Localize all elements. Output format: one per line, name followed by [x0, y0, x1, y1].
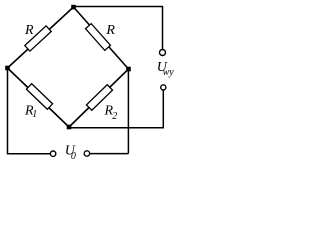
svg-text:R: R [24, 23, 34, 38]
label R2 [104, 103, 118, 122]
svg-text:1: 1 [32, 109, 37, 120]
label Uwy [157, 60, 174, 78]
svg-text:0: 0 [71, 151, 76, 162]
resistor R1 [26, 84, 52, 110]
node left [5, 66, 10, 71]
resistor R (top-left) [25, 26, 51, 51]
node bottom [67, 125, 72, 130]
label U0 [65, 143, 76, 162]
wire top node to Uwy upper terminal [74, 7, 163, 50]
wire top node to right node [74, 7, 129, 69]
wire left node to bottom node [8, 68, 70, 127]
svg-text:R: R [105, 23, 115, 38]
wire bottom node to Uwy lower terminal [69, 90, 163, 128]
terminal U0 left [50, 151, 55, 156]
svg-text:wy: wy [163, 67, 175, 78]
node right [126, 67, 131, 72]
wire right node down to bottom rail [127, 69, 129, 154]
wire left node to top node [8, 7, 74, 68]
wire bottom rail left segment to left node [8, 68, 51, 154]
resistor R2 [86, 85, 112, 111]
label R1 [24, 104, 37, 120]
resistor R (top-right) [86, 24, 111, 51]
svg-text:2: 2 [112, 111, 117, 122]
terminal Uwy lower [161, 85, 166, 90]
wire bottom node to right node [69, 69, 129, 127]
wire bottom rail right segment [90, 153, 129, 155]
terminal U0 right [84, 151, 89, 156]
terminal Uwy upper [160, 50, 166, 56]
node top [71, 5, 76, 10]
